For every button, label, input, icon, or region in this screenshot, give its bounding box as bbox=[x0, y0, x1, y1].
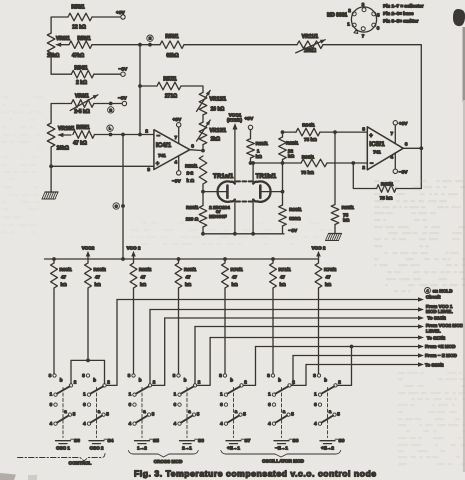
svg-text:Pin 3–5= emitter: Pin 3–5= emitter bbox=[383, 19, 419, 24]
resistor R66/1 bbox=[301, 159, 327, 167]
svg-text:62kΩ: 62kΩ bbox=[166, 53, 178, 59]
svg-text:47: 47 bbox=[232, 275, 238, 280]
svg-text:+6V: +6V bbox=[116, 10, 125, 16]
svg-text:kΩ: kΩ bbox=[325, 282, 332, 287]
svg-text:kΩ: kΩ bbox=[232, 282, 239, 287]
svg-text:2 kΩ: 2 kΩ bbox=[76, 80, 87, 86]
wiper arrow VR8 bbox=[59, 44, 69, 46]
svg-text:R53/1: R53/1 bbox=[71, 5, 85, 11]
resistor R64/1 bbox=[296, 128, 320, 136]
svg-text:IC5/1: IC5/1 bbox=[369, 141, 385, 148]
wire: R66 to IC5 pin 2 bbox=[327, 162, 367, 164]
svg-text:47kΩ: 47kΩ bbox=[72, 53, 84, 59]
svg-text:b: b bbox=[230, 378, 233, 383]
wire: lvl3 drop to S5 pos2 bbox=[152, 318, 165, 385]
svg-text:MD 8001: MD 8001 bbox=[327, 13, 348, 19]
junction: TR1a base node bbox=[201, 190, 205, 194]
svg-text:OSC 2: OSC 2 bbox=[90, 445, 104, 450]
wire: feedback down bbox=[420, 148, 422, 188]
svg-text:10kΩ: 10kΩ bbox=[57, 145, 69, 151]
svg-text:2·5 kΩ: 2·5 kΩ bbox=[74, 109, 89, 115]
svg-text:271Ω: 271Ω bbox=[165, 94, 177, 100]
svg-text:b: b bbox=[60, 378, 63, 383]
wire: R62 top stub bbox=[282, 132, 284, 137]
potentiometer VR11/1 bbox=[297, 41, 323, 49]
wire: R54 to -6V terminal bbox=[94, 73, 121, 75]
terminal -6V (R54) bbox=[121, 72, 125, 76]
terminal +9V (IC5) bbox=[393, 121, 397, 125]
junction: link line on rail bbox=[121, 257, 125, 261]
svg-text:R64/1: R64/1 bbox=[302, 123, 315, 128]
svg-text:MOD LEVEL: MOD LEVEL bbox=[426, 309, 453, 314]
resistor R68/1 47k bbox=[53, 259, 55, 263]
wiper arrow VR9 bbox=[70, 95, 98, 111]
svg-text:b: b bbox=[139, 378, 142, 383]
junction: R65 branch bbox=[333, 130, 337, 134]
terminal -9V (IC5) bbox=[393, 169, 397, 173]
resistor R69/2 47k bbox=[133, 257, 135, 263]
svg-text:+9V: +9V bbox=[399, 121, 408, 127]
junction: feedback node on pin2 wire bbox=[351, 161, 355, 165]
wire: +E branch to S9 pos2 bbox=[337, 347, 351, 386]
svg-text:b: b bbox=[278, 378, 281, 383]
svg-text:+E→1: +E→1 bbox=[227, 445, 240, 450]
ground (left) bbox=[45, 191, 58, 193]
wire: ground node to IC4 pin 3 bbox=[51, 165, 154, 167]
rotary switch S8 bbox=[271, 374, 274, 377]
svg-text:12 kΩ: 12 kΩ bbox=[72, 25, 86, 31]
svg-text:R60/1: R60/1 bbox=[186, 205, 199, 210]
svg-text:820Ω: 820Ω bbox=[289, 216, 301, 221]
wire: +9V to R61 bbox=[250, 130, 252, 139]
IC5 pin 7 stub bbox=[394, 125, 396, 144]
svg-text:R59/1: R59/1 bbox=[185, 164, 198, 169]
svg-text:47: 47 bbox=[326, 275, 332, 280]
IC4 pin 4 stub bbox=[178, 156, 180, 171]
svg-text:S7: S7 bbox=[245, 438, 251, 444]
wire: TR1b collector up to summing rail bbox=[252, 163, 254, 184]
svg-text:−9V: −9V bbox=[172, 179, 181, 185]
svg-text:−6V: −6V bbox=[118, 95, 127, 101]
svg-text:2: 2 bbox=[362, 165, 365, 170]
svg-text:7: 7 bbox=[391, 131, 394, 136]
svg-text:kΩ: kΩ bbox=[95, 282, 102, 287]
svg-text:CONTROL: CONTROL bbox=[69, 461, 92, 466]
svg-text:TR1a/1: TR1a/1 bbox=[213, 173, 234, 180]
wire: VCO1 control rail bbox=[45, 258, 319, 260]
junction: IC5 output node bbox=[419, 146, 423, 150]
resistor R62/1 bbox=[279, 137, 287, 160]
svg-text:7: 7 bbox=[175, 135, 178, 140]
transistor TR1b/1 bbox=[253, 181, 270, 201]
svg-text:CROSS MOD: CROSS MOD bbox=[154, 459, 183, 464]
wire: VR8 bottom to R54 bbox=[51, 57, 71, 74]
svg-text:4: 4 bbox=[175, 160, 178, 165]
svg-text:VR8/1: VR8/1 bbox=[56, 36, 70, 42]
svg-text:From +E MOD: From +E MOD bbox=[425, 344, 456, 349]
label: on HOLD circuit bbox=[425, 288, 431, 294]
wire: R70/1 to S7 pos3 bbox=[224, 288, 226, 374]
svg-text:VR13/1: VR13/1 bbox=[210, 128, 227, 134]
wire: TR1a collector up to VCO1 arrow bbox=[234, 129, 236, 184]
junction: bus top bbox=[138, 43, 142, 47]
terminal -9V (IC4) bbox=[177, 171, 181, 175]
junction: IC4 output node bbox=[201, 149, 205, 153]
wire: output line lvl1 bbox=[117, 299, 420, 301]
svg-text:75 kΩ: 75 kΩ bbox=[304, 137, 317, 142]
link R bbox=[108, 107, 114, 113]
wire: R53 to +6V terminal bbox=[92, 16, 121, 18]
junction: TR1b emitter on rail bbox=[251, 232, 255, 236]
input rail to IC5 pin3 bbox=[283, 131, 297, 133]
svg-text:S9: S9 bbox=[339, 438, 345, 444]
wire: R55 to IC4 pin 2 bbox=[95, 134, 155, 136]
wire: VR13 to IC4 output node bbox=[202, 145, 204, 151]
svg-text:R67/1: R67/1 bbox=[381, 181, 394, 186]
resistor R65/1 bbox=[331, 205, 339, 225]
svg-text:+: + bbox=[369, 133, 373, 139]
svg-text:To S18/2: To S18/2 bbox=[425, 362, 444, 367]
wire: -6V rail (emitters) bbox=[203, 233, 284, 235]
svg-text:b: b bbox=[324, 378, 327, 383]
svg-text:S4: S4 bbox=[108, 438, 114, 444]
wire: VR11 to IC5 output bbox=[323, 45, 421, 149]
svg-text:−E→1: −E→1 bbox=[275, 445, 288, 450]
svg-text:LEVEL: LEVEL bbox=[426, 329, 441, 334]
junction: R62 top bbox=[281, 130, 285, 134]
potentiometer VR10/1 bbox=[47, 123, 55, 147]
junction: bus at R57 bbox=[138, 84, 142, 88]
svg-text:OSCILLATOR MOD: OSCILLATOR MOD bbox=[262, 459, 304, 464]
svg-text:R65/1: R65/1 bbox=[342, 205, 355, 210]
resistor R58/1 bbox=[160, 41, 184, 49]
svg-text:R58/1: R58/1 bbox=[165, 34, 179, 40]
wire: output line lvl5 bbox=[210, 337, 419, 339]
rotary switch S4 bbox=[86, 374, 89, 377]
svg-text:+: + bbox=[156, 162, 160, 168]
svg-text:OSC 1: OSC 1 bbox=[56, 445, 70, 450]
junction: TR1b base node bbox=[281, 190, 285, 194]
svg-text:kΩ: kΩ bbox=[140, 282, 147, 287]
link H bbox=[147, 35, 153, 41]
svg-text:2·2: 2·2 bbox=[187, 171, 194, 176]
svg-text:VR9/1: VR9/1 bbox=[75, 93, 89, 99]
potentiometer VR8/1 bbox=[47, 33, 55, 57]
wire: lvl8 drop to S8 pos2 bbox=[291, 365, 306, 386]
svg-text:47: 47 bbox=[141, 275, 147, 280]
svg-text:S6: S6 bbox=[198, 438, 204, 444]
page artifact: right edge strip bbox=[463, 27, 465, 102]
svg-text:From VCO2 MOD: From VCO2 MOD bbox=[426, 323, 464, 328]
junction: TR1b collector node bbox=[251, 161, 255, 165]
svg-text:S8: S8 bbox=[293, 438, 299, 444]
svg-text:VR10/1: VR10/1 bbox=[58, 126, 75, 132]
link C bbox=[113, 203, 119, 209]
link L bbox=[107, 125, 113, 131]
svg-text:3: 3 bbox=[362, 126, 365, 131]
svg-text:+E→2: +E→2 bbox=[321, 445, 334, 450]
svg-text:R70/1: R70/1 bbox=[231, 267, 244, 272]
svg-text:kΩ: kΩ bbox=[280, 282, 287, 287]
resistor R67/1 bbox=[377, 185, 396, 193]
svg-text:R71/1: R71/1 bbox=[279, 267, 292, 272]
junction: link line top bbox=[121, 133, 125, 137]
wire: R57 to VR12 top bbox=[181, 86, 203, 92]
junction: link C node bbox=[121, 204, 125, 208]
wire: R63 to -6V rail bbox=[282, 226, 284, 234]
wire: feedback bus down to IC4 pin 2 bbox=[139, 45, 141, 135]
wire: feedback horizontal right part bbox=[396, 188, 421, 190]
ground (R65) bbox=[329, 233, 342, 235]
wire: TR1b base node to R63 bbox=[282, 192, 284, 205]
wire: output line lvl6 bbox=[256, 346, 420, 348]
wire: lvl1 drop to S4 pos2 bbox=[106, 300, 117, 386]
svg-text:k Ω: k Ω bbox=[187, 178, 195, 183]
wire: R65 column bbox=[334, 132, 336, 204]
svg-text:120 Ω: 120 Ω bbox=[186, 217, 199, 222]
rotary switch S5 bbox=[132, 374, 135, 377]
resistor R60/1 bbox=[199, 206, 207, 228]
wire: lvl7 drop to S8 pos2 bbox=[291, 356, 293, 386]
svg-text:R61/1: R61/1 bbox=[256, 141, 269, 146]
svg-text:47: 47 bbox=[95, 275, 101, 280]
junction: ground node bbox=[49, 164, 53, 168]
resistor R70/2 47k bbox=[318, 257, 320, 263]
resistor R59/1 bbox=[199, 156, 207, 184]
svg-text:741: 741 bbox=[373, 150, 381, 155]
wire: R62 bottom to TR1b base bbox=[282, 160, 284, 192]
svg-text:6: 6 bbox=[405, 142, 408, 147]
resistor R56/1 bbox=[69, 41, 92, 49]
resistor R61/1 bbox=[247, 139, 255, 158]
svg-text:R62/1: R62/1 bbox=[286, 141, 299, 146]
svg-text:To S17/2: To S17/2 bbox=[427, 336, 446, 341]
wire: output line lvl2 bbox=[150, 309, 420, 311]
svg-text:H: H bbox=[149, 37, 152, 41]
wire: VR9 left down to VR10 bbox=[51, 104, 71, 124]
svg-text:R68/1: R68/1 bbox=[60, 267, 73, 272]
wire: IC4 output bbox=[190, 149, 203, 152]
svg-text:IC4/1: IC4/1 bbox=[156, 142, 172, 149]
junction: link L node bbox=[109, 133, 113, 137]
resistor R55/1 bbox=[73, 131, 95, 139]
svg-text:47: 47 bbox=[280, 275, 286, 280]
wire: output line lvl8 bbox=[306, 364, 420, 366]
wire: output line lvl3 bbox=[165, 317, 420, 319]
wire: R70/2 to S9 pos3 bbox=[318, 288, 320, 374]
resistor R71/1 47k bbox=[272, 259, 274, 263]
svg-text:R68/2: R68/2 bbox=[94, 267, 107, 272]
svg-text:kΩ: kΩ bbox=[288, 153, 295, 158]
svg-text:10 kΩ: 10 kΩ bbox=[211, 107, 225, 113]
wire: R53 left feed down to VR8 top bbox=[51, 17, 68, 33]
svg-text:+9V: +9V bbox=[173, 117, 182, 123]
page artifact: bottom left smudge bbox=[0, 473, 16, 480]
svg-text:TR1b/1: TR1b/1 bbox=[256, 173, 277, 180]
resistor R69/1 47k bbox=[178, 259, 180, 263]
potentiometer VR13/1 bbox=[199, 122, 207, 145]
svg-text:C: C bbox=[115, 205, 118, 209]
svg-text:on HOLD: on HOLD bbox=[433, 288, 454, 293]
wire: link line down to lower rail bbox=[122, 135, 124, 260]
wire: IC5 output bbox=[403, 147, 421, 149]
svg-text:To S16/2: To S16/2 bbox=[427, 316, 446, 321]
wire: R69/1 to S6 pos3 bbox=[178, 288, 180, 374]
svg-text:Pin 1–7 = collector: Pin 1–7 = collector bbox=[383, 4, 424, 9]
svg-text:kΩ: kΩ bbox=[343, 217, 350, 222]
bridge wire R68/2 to S3/S4 pos2 bbox=[71, 360, 105, 383]
svg-text:b: b bbox=[93, 378, 96, 383]
rotary switch S6 bbox=[177, 374, 180, 377]
wire: TR1b emitter to -6V rail bbox=[252, 200, 254, 234]
IC5 pin 4 stub bbox=[394, 153, 396, 169]
wire: VR10 bottom to ground junction bbox=[50, 147, 52, 192]
svg-text:2: 2 bbox=[145, 128, 148, 133]
wire: R68/1 to S3 pos3 bbox=[53, 288, 55, 374]
wire: lvl2 drop to S5 pos2 bbox=[149, 310, 151, 384]
wiper arrow VR11 bbox=[296, 40, 326, 53]
junction: bridge center bbox=[86, 359, 90, 363]
wire: output line lvl4 bbox=[195, 326, 420, 328]
svg-text:From − E MOD: From − E MOD bbox=[425, 353, 457, 358]
svg-text:R54/1: R54/1 bbox=[74, 65, 88, 71]
rotary switch S3 bbox=[53, 374, 56, 377]
resistor R53/1 bbox=[68, 13, 92, 21]
wire: lvl4 drop to S6 pos2 bbox=[194, 327, 196, 384]
svg-text:R56/1: R56/1 bbox=[77, 36, 91, 42]
wire: feedback to pin2 node bbox=[353, 163, 376, 189]
svg-text:VCO 2: VCO 2 bbox=[127, 245, 141, 250]
thermal coupling dashed links TR1a-TR1b bbox=[236, 180, 252, 182]
op-amp IC5/1 bbox=[367, 127, 403, 170]
terminal -6V (VR9) bbox=[122, 101, 126, 105]
bracket OSCILLATOR MOD bbox=[221, 451, 341, 458]
bracket CROSS MOD bbox=[128, 451, 198, 458]
svg-text:3: 3 bbox=[147, 167, 150, 172]
summing rail (TR1b collector line) bbox=[251, 162, 302, 164]
svg-text:R66/1: R66/1 bbox=[302, 155, 315, 160]
wiper arrow VR12 bbox=[197, 90, 211, 111]
svg-text:R57/1: R57/1 bbox=[163, 76, 177, 82]
resistor R70/1 47k bbox=[224, 259, 226, 263]
svg-text:75 kΩ: 75 kΩ bbox=[301, 170, 314, 175]
wire: R58 to VR11 bbox=[184, 44, 297, 46]
svg-text:47: 47 bbox=[186, 275, 192, 280]
svg-text:−9V: −9V bbox=[399, 169, 408, 175]
svg-text:−6V: −6V bbox=[119, 66, 128, 72]
svg-text:MD800F: MD800F bbox=[209, 214, 227, 219]
wiper arrow VR13 bbox=[197, 120, 211, 141]
terminal +9V (IC4) bbox=[177, 123, 181, 127]
junction: R62 bottom on rail bbox=[281, 161, 285, 165]
svg-text:R: R bbox=[109, 108, 112, 112]
svg-text:1→2: 1→2 bbox=[137, 445, 147, 450]
svg-text:+9V: +9V bbox=[245, 116, 254, 122]
wire: VR9 right to -6V terminal bbox=[94, 103, 122, 105]
svg-text:b: b bbox=[184, 378, 187, 383]
svg-text:R69/1: R69/1 bbox=[184, 267, 197, 272]
svg-text:47: 47 bbox=[61, 275, 67, 280]
rotary switch S9 bbox=[317, 374, 320, 377]
svg-text:R63/1: R63/1 bbox=[289, 207, 302, 212]
svg-text:1: 1 bbox=[257, 148, 260, 153]
wire: R56 to R58 (node H rail) bbox=[92, 44, 160, 46]
svg-text:kΩ: kΩ bbox=[185, 282, 192, 287]
wire: R68/2 to bridge bbox=[87, 288, 89, 360]
svg-text:10kΩ: 10kΩ bbox=[47, 53, 59, 59]
svg-text:1kΩ: 1kΩ bbox=[211, 136, 221, 142]
rotary switch S7 bbox=[223, 374, 226, 377]
svg-text:Fig. 3. Temperature compensate: Fig. 3. Temperature compensated v.c.o. c… bbox=[134, 469, 377, 479]
svg-text:kΩ: kΩ bbox=[61, 282, 68, 287]
svg-text:VR12/1: VR12/1 bbox=[210, 97, 227, 103]
svg-text:(RT2/1): (RT2/1) bbox=[227, 117, 242, 122]
potentiometer VR9/1 bbox=[71, 100, 94, 108]
svg-text:4: 4 bbox=[391, 155, 394, 160]
potentiometer VR12/1 bbox=[199, 92, 207, 115]
wire: R71/1 to S8 pos3 bbox=[272, 288, 274, 374]
svg-text:R69/2: R69/2 bbox=[139, 267, 152, 272]
junction: TR1a emitter on rail bbox=[233, 232, 237, 236]
svg-text:VCO2: VCO2 bbox=[82, 245, 95, 250]
wire: output line lvl7 bbox=[293, 355, 420, 357]
transistor TR1a/1 bbox=[218, 181, 235, 201]
wiper arrow VR10 bbox=[61, 134, 71, 136]
wire: R59 to TR1a base node bbox=[202, 184, 204, 206]
page artifact: dark blob top right bbox=[453, 9, 465, 26]
op-amp IC4/1 bbox=[154, 130, 190, 170]
junction: +E branch on lvl6 bbox=[350, 345, 354, 349]
svg-text:R55/1: R55/1 bbox=[76, 125, 90, 131]
svg-text:S3: S3 bbox=[74, 438, 80, 444]
resistor R57/1 bbox=[157, 82, 181, 90]
wire: R65 to ground bbox=[334, 225, 336, 234]
wire: R64 to IC5 pin 3 bbox=[320, 131, 367, 133]
resistor R54/1 bbox=[71, 70, 94, 78]
wire: R60 to -6V rail bbox=[202, 227, 204, 234]
svg-text:741: 741 bbox=[158, 153, 166, 158]
transistor package MD8001 outline bbox=[351, 7, 376, 32]
page artifact: bleed-through texture bbox=[374, 180, 380, 182]
svg-text:S5: S5 bbox=[153, 438, 159, 444]
junction: R61 on rail bbox=[249, 161, 253, 165]
svg-text:−: − bbox=[370, 161, 374, 167]
terminal +6V (top left) bbox=[121, 15, 125, 19]
svg-text:−: − bbox=[157, 134, 161, 140]
wire: VR12 to VR13 bbox=[202, 115, 204, 122]
junction: bus at pin2 wire bbox=[138, 133, 142, 137]
svg-text:R70/2: R70/2 bbox=[324, 267, 337, 272]
svg-text:VCO 2: VCO 2 bbox=[312, 245, 326, 250]
bracket CONTROL bbox=[18, 454, 106, 462]
resistor R68/2 47k bbox=[87, 257, 89, 263]
wire: TR1a emitter to -6V rail bbox=[234, 200, 236, 234]
wire: R69/2 to S5 pos3 bbox=[133, 288, 135, 374]
svg-text:kΩ: kΩ bbox=[256, 154, 263, 159]
wire: R61 to summing rail bbox=[250, 158, 252, 163]
junction: R60 on -6V rail bbox=[201, 232, 205, 236]
wire: bus to R57 bbox=[140, 85, 157, 87]
svg-text:6: 6 bbox=[191, 143, 194, 148]
wire: lvl6 drop to S7 pos2 bbox=[243, 347, 255, 386]
node VCO1 (RT2/1) output arrow bbox=[233, 123, 238, 130]
IC4 pin 7 stub bbox=[178, 127, 180, 144]
wire: lvl5 drop to S6 pos2 bbox=[197, 338, 210, 386]
terminal +9V (R61 feed) bbox=[248, 125, 252, 129]
svg-text:Pin 2–6= base: Pin 2–6= base bbox=[383, 11, 414, 16]
junction: link R node bbox=[109, 102, 113, 106]
MD8001 pin circles bbox=[362, 8, 366, 12]
